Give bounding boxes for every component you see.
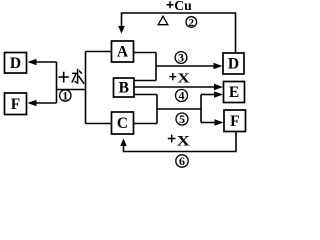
wire B output top xyxy=(134,80,156,82)
label circled 6 xyxy=(176,154,188,168)
wire left bracket vertical xyxy=(85,52,87,124)
wire bracket to C xyxy=(86,123,112,125)
arrowhead down toward A xyxy=(118,26,125,34)
wire splitter vertical xyxy=(56,62,58,103)
label circled 1 xyxy=(60,88,71,102)
svg-text:B: B xyxy=(119,80,129,97)
wire arrow 1b to F left xyxy=(35,102,57,104)
svg-text:A: A xyxy=(117,44,129,61)
label +Cu xyxy=(167,1,174,8)
svg-text:Cu: Cu xyxy=(174,0,192,14)
svg-text:6: 6 xyxy=(179,154,185,168)
letter C xyxy=(117,115,128,132)
label triangle heat xyxy=(158,16,168,25)
wire bottom 6 line from F to C xyxy=(124,132,237,152)
wire vertical junction A-B xyxy=(155,53,157,81)
box F right xyxy=(224,110,246,132)
svg-text:X: X xyxy=(177,134,191,150)
label circled 4 xyxy=(176,88,188,102)
label 水 character xyxy=(72,69,84,84)
wire top +Cu line from D right to A xyxy=(122,13,236,53)
box D left xyxy=(5,53,27,74)
arrowhead into E upper xyxy=(214,84,223,91)
arrowhead into F left xyxy=(28,100,37,107)
svg-text:X: X xyxy=(177,72,189,87)
box A xyxy=(112,41,134,62)
wire left connector xyxy=(57,89,86,91)
svg-text:D: D xyxy=(10,55,21,72)
label circled 3 xyxy=(175,50,187,64)
arrowhead into D left xyxy=(28,59,37,66)
svg-text:4: 4 xyxy=(179,88,185,102)
letter E xyxy=(229,84,239,101)
arrowhead into F right xyxy=(215,119,224,126)
svg-text:3: 3 xyxy=(178,50,184,64)
letter D left xyxy=(10,55,21,72)
wire vertical junction B-C xyxy=(156,95,158,124)
box B xyxy=(114,78,135,97)
wire B output bottom xyxy=(134,94,157,96)
svg-text:2: 2 xyxy=(189,17,195,29)
letter A xyxy=(117,44,129,61)
wire vertical junction E-F xyxy=(200,95,202,123)
box C xyxy=(112,112,134,134)
wire A output xyxy=(134,52,157,54)
arrowhead into E lower xyxy=(214,91,223,98)
svg-text:F: F xyxy=(11,96,20,113)
wire to F right xyxy=(201,122,216,124)
letter D right xyxy=(228,56,239,73)
label circled 5 xyxy=(176,112,188,126)
svg-text:D: D xyxy=(228,56,239,73)
wire 5 merge line xyxy=(157,108,201,110)
label circled 2 xyxy=(186,17,197,29)
label +X bottom xyxy=(168,135,176,143)
arrowhead up into C bottom xyxy=(120,139,127,147)
svg-text:E: E xyxy=(229,84,239,101)
arrowhead into D right xyxy=(214,63,223,70)
box D right xyxy=(223,53,244,74)
wire 3 to D right xyxy=(156,65,215,67)
svg-text:1: 1 xyxy=(62,88,68,102)
svg-text:C: C xyxy=(117,115,128,132)
wire arrow 1a to D left xyxy=(35,61,57,63)
svg-text:F: F xyxy=(230,113,239,130)
letter F right xyxy=(230,113,239,130)
box E xyxy=(224,82,245,103)
label +X middle xyxy=(169,73,176,80)
label +水 plus sign xyxy=(59,72,70,83)
svg-text:5: 5 xyxy=(179,112,185,126)
letter B xyxy=(119,80,129,97)
wire bracket to A xyxy=(86,51,112,53)
wire 4 from B to E xyxy=(134,86,216,88)
box F left xyxy=(5,93,27,115)
wire C output xyxy=(134,123,158,125)
wire to E lower xyxy=(201,94,216,96)
letter F left xyxy=(11,96,20,113)
